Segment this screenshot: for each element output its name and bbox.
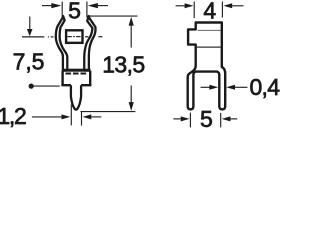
svg-text:5: 5 (200, 106, 213, 128)
dim "5" top: arrowheads (51, 3, 61, 8)
dim "0,4": arrows at right leg (201, 86, 211, 88)
side view outline (188, 23, 226, 110)
centerline (dash-dot fuse axis) (22, 36, 102, 38)
svg-text:5: 5 (68, 0, 81, 23)
dim "13,5": bottom extension line (81, 111, 136, 113)
lower body (61, 71, 91, 85)
dim "13,5": top extension line (90, 15, 138, 17)
solder pin with pointed tip (71, 85, 81, 110)
inner thin edge lines (198, 29, 221, 31)
hidden edge (dashed) (66, 72, 87, 74)
svg-text:0,4: 0,4 (249, 74, 280, 100)
dim "5" bottom: extension lines, arrows, text (173, 113, 237, 128)
left spring finger (56, 16, 68, 71)
dim "4": extension lines and arrows (176, 2, 244, 19)
centerline in window (68, 36, 81, 38)
svg-text:13,5: 13,5 (102, 51, 144, 77)
svg-text:4: 4 (203, 0, 216, 23)
dim "5" top: extension lines (42, 2, 108, 18)
right spring finger (mirror) (84, 16, 95, 71)
dim "1,2": dimension lines & arrows (32, 105, 101, 126)
svg-text:7,5: 7,5 (13, 49, 45, 75)
dim "7,5": dot reference at body bottom (29, 84, 34, 89)
base band (62, 69, 90, 72)
dim "13,5": dimension line & arrows (130, 25, 132, 104)
svg-text:1,2: 1,2 (0, 103, 26, 128)
window rectangle (66, 30, 82, 43)
dim "7,5": arrow from above pointing at centerline (29, 17, 31, 30)
